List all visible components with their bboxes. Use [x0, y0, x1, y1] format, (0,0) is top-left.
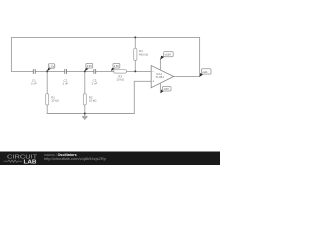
svg-text:2 nF: 2 nF: [31, 81, 37, 85]
wire R4 leads: [134, 37, 136, 48]
wire C2 to R2 node: [67, 70, 94, 72]
footer text: [44, 153, 107, 161]
svg-text:−: −: [152, 70, 154, 74]
junction ground: [84, 113, 86, 115]
footer bar: [0, 152, 220, 166]
node flag R2 top: [85, 63, 93, 71]
svg-text:http://circuitlab.com/c/q8k94z: http://circuitlab.com/c/q8k94zjs2Rp: [44, 156, 107, 161]
wire non-inverting input path: [134, 81, 151, 113]
resistor R2: [83, 94, 97, 105]
wire ground rail: [47, 113, 134, 115]
wire top feedback: [11, 37, 199, 76]
wire R2 leads: [84, 71, 86, 93]
ground: [82, 114, 88, 120]
svg-text:10 kΩ: 10 kΩ: [89, 99, 97, 103]
svg-text:out1: out1: [202, 70, 208, 74]
wire R3 to op-amp inverting input: [127, 70, 152, 72]
svg-text:-15V: -15V: [163, 87, 169, 91]
wire op-amp output: [174, 75, 200, 77]
node flag R3 left: [111, 63, 120, 71]
svg-text:+15V: +15V: [165, 53, 172, 57]
resistor R1: [46, 94, 60, 105]
output flag: [199, 69, 211, 77]
power flag +VS: [160, 52, 173, 60]
logo CIRCUIT: [4, 155, 39, 166]
junction R2 node: [84, 70, 86, 72]
resistor R4: [134, 48, 149, 60]
svg-text:10 kΩ: 10 kΩ: [116, 78, 124, 82]
capacitor C3: [94, 69, 96, 74]
capacitor C1: [33, 69, 35, 74]
svg-text:400 kΩ: 400 kΩ: [139, 53, 149, 57]
svg-text:1.5V: 1.5V: [49, 64, 55, 68]
wire R1 leads: [46, 71, 48, 93]
junction R1 node: [46, 70, 48, 72]
svg-text:TL081: TL081: [156, 75, 165, 79]
svg-text:LAB: LAB: [24, 159, 37, 165]
svg-text:1.5V: 1.5V: [114, 64, 120, 68]
wire main input rail: [11, 70, 33, 72]
wire C3 to R3: [96, 70, 114, 72]
resistor R3: [114, 70, 127, 82]
logo resistor zigzag: [4, 160, 23, 162]
svg-text:2 nF: 2 nF: [63, 81, 69, 85]
svg-text:+: +: [152, 79, 154, 83]
junction R4 top: [134, 36, 136, 38]
wire C1 to R1 node: [35, 70, 65, 72]
svg-text:1.5V: 1.5V: [87, 64, 93, 68]
svg-text:10 kΩ: 10 kΩ: [51, 99, 59, 103]
svg-text:2 nF: 2 nF: [92, 81, 98, 85]
junction R4 bottom: [134, 70, 136, 72]
op-amp OA1: [151, 59, 173, 93]
capacitor C2: [65, 69, 67, 74]
node flag R1 top: [47, 64, 55, 72]
power flag -VS: [160, 87, 171, 94]
